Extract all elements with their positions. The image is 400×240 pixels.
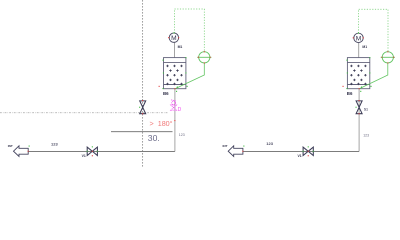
svg-text:V1: V1	[82, 154, 86, 158]
svg-text:INT: INT	[223, 144, 228, 148]
svg-text:123: 123	[266, 141, 273, 146]
svg-text:123: 123	[363, 134, 369, 138]
svg-text:B6: B6	[163, 91, 169, 96]
svg-text:30.: 30.	[148, 133, 160, 143]
svg-text:123: 123	[179, 133, 185, 137]
svg-text:> 180°: > 180°	[150, 119, 173, 128]
svg-text:S1: S1	[364, 107, 368, 111]
svg-text:B6: B6	[347, 91, 353, 96]
svg-text:123: 123	[51, 141, 58, 146]
svg-text:M1: M1	[362, 45, 367, 49]
svg-text:INT: INT	[8, 144, 13, 148]
svg-text:D: D	[178, 107, 182, 113]
svg-text:V1: V1	[298, 154, 302, 158]
svg-text:M1: M1	[178, 45, 183, 49]
svg-text:M: M	[171, 35, 177, 42]
svg-text:M: M	[356, 35, 362, 42]
